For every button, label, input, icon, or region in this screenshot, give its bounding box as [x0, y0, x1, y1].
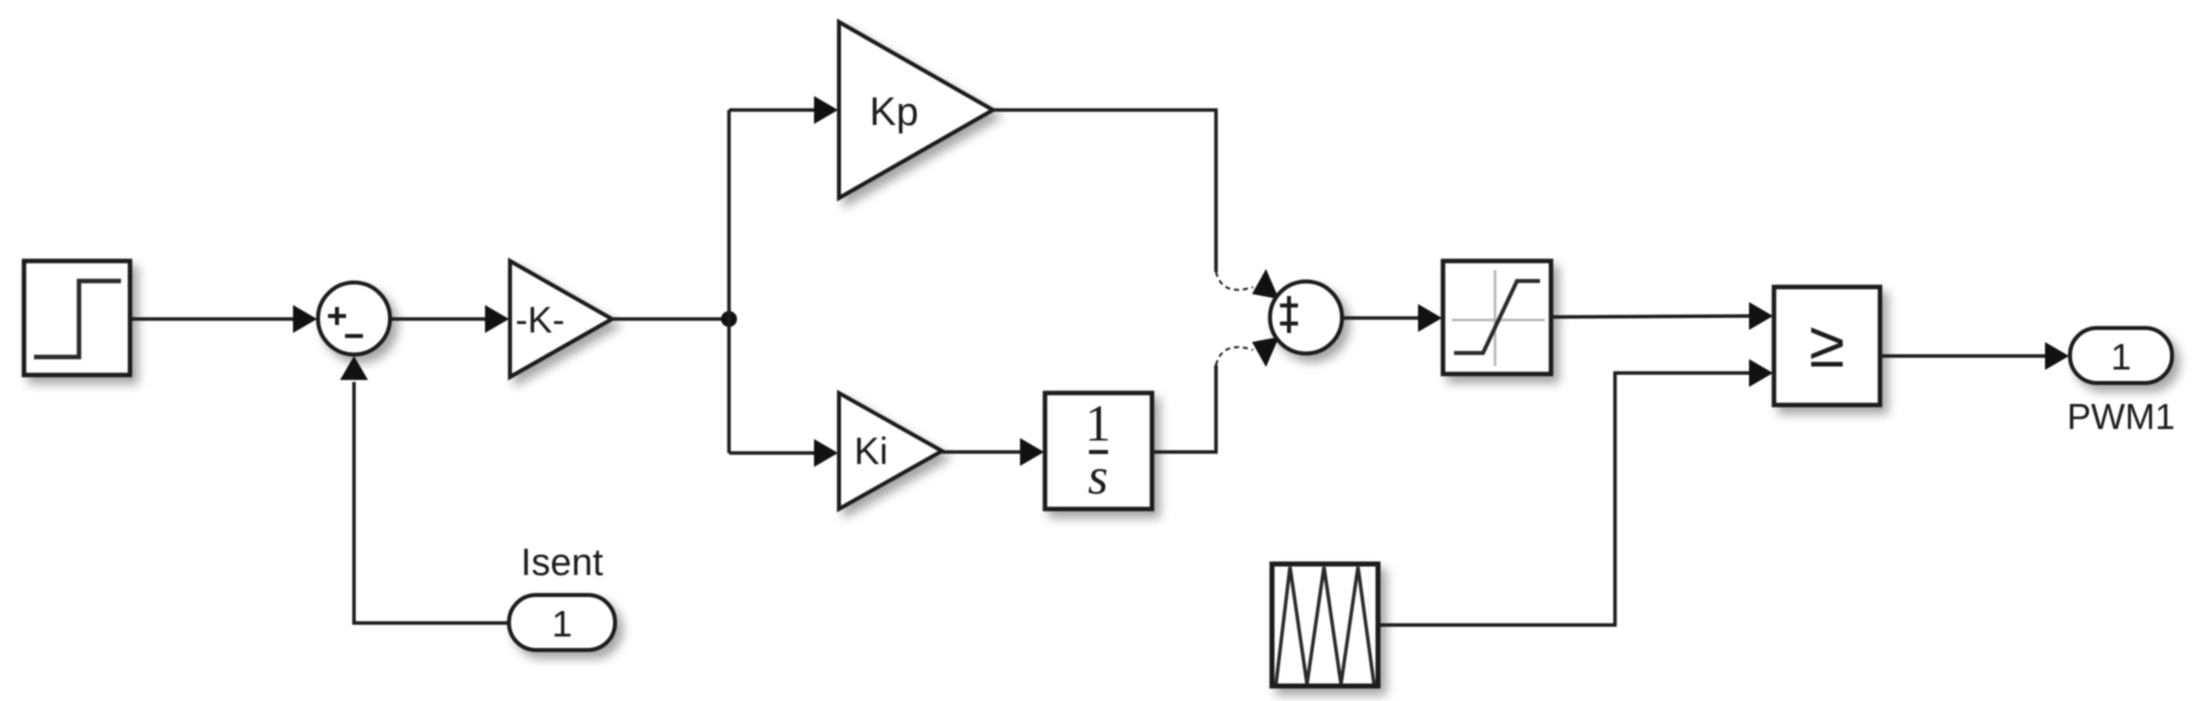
gain Kp: [839, 22, 993, 198]
svg-text:Isent: Isent: [521, 542, 604, 584]
gain -K-: [510, 261, 612, 377]
sum junction S1 (+/-): [318, 283, 390, 355]
wire gain to branch node: [612, 317, 729, 321]
arrowhead into outport: [2045, 342, 2069, 370]
inport 1 Isent: [509, 595, 615, 650]
arrowhead into relational input2: [1749, 359, 1773, 387]
wire Isent feedback to sum1: [354, 382, 509, 623]
svg-text:Kp: Kp: [870, 90, 919, 134]
integrator 1/s: [1045, 393, 1152, 509]
arrowhead into gain -K-: [485, 305, 509, 333]
svg-text:-K-: -K-: [515, 300, 564, 341]
arrowhead into Ki: [814, 439, 838, 467]
sum junction S2 (+/+): [1270, 282, 1342, 354]
arrowhead into sum1 left: [293, 305, 317, 333]
wire Kp output: [993, 110, 1216, 272]
outport 1: [2070, 328, 2172, 383]
svg-text:≥: ≥: [1809, 308, 1845, 381]
arrowhead into sum2 upper-left: [1252, 269, 1279, 299]
svg-text:Ki: Ki: [854, 431, 888, 473]
wire Ki to integrator: [942, 450, 1023, 454]
relational operator >=: [1774, 287, 1880, 405]
wire step to sum1: [130, 317, 296, 321]
wire triangle wave to relational input2: [1378, 373, 1751, 625]
arrowhead into sum1 bottom: [340, 356, 368, 380]
wire saturation to relational op input1: [1551, 316, 1751, 317]
arrowhead into Kp: [814, 96, 838, 124]
wire branch to Ki: [729, 451, 817, 455]
svg-text:1: 1: [552, 604, 573, 645]
arrowhead into relational input1: [1749, 302, 1773, 330]
gain Ki: [839, 393, 942, 509]
arrowhead into saturation: [1418, 304, 1442, 332]
wire branch to Kp: [729, 108, 817, 112]
svg-text:1: 1: [1085, 396, 1111, 453]
curved dashed lead into sum2 bottom: [1216, 347, 1253, 365]
saturation block: [1443, 261, 1551, 374]
wire sum1 to gain -K-: [390, 317, 488, 321]
svg-text:s: s: [1088, 449, 1108, 506]
step source block: [24, 261, 130, 375]
branch node (junction dot): [721, 311, 737, 327]
wire integrator output: [1152, 365, 1216, 452]
wire sum2 to saturation: [1342, 316, 1420, 320]
wire relational op to outport: [1880, 354, 2047, 358]
svg-text:1: 1: [2111, 337, 2132, 378]
triangle wave source (repeating sequence): [1272, 564, 1378, 686]
curved dashed lead into sum2 top: [1216, 272, 1253, 290]
arrowhead into sum2 lower-left: [1252, 337, 1279, 367]
arrowhead into integrator: [1020, 438, 1044, 466]
svg-text:PWM1: PWM1: [2067, 396, 2175, 437]
wire branch vertical: [727, 110, 731, 453]
